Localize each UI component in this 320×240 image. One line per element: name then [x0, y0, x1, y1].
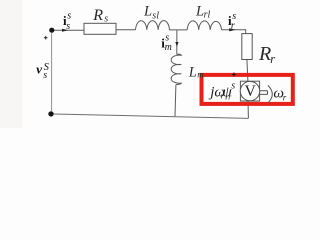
svg-text:s: s: [231, 80, 235, 91]
svg-text:L: L: [188, 65, 197, 81]
svg-text:s: s: [104, 14, 108, 25]
svg-text:s: s: [66, 21, 70, 32]
svg-text:v: v: [36, 62, 42, 77]
svg-text:R: R: [92, 7, 103, 24]
svg-text:V: V: [245, 83, 257, 100]
svg-text:s: s: [67, 10, 71, 21]
svg-text:rl: rl: [204, 10, 211, 21]
svg-text:s: s: [43, 70, 47, 81]
svg-text:m: m: [197, 69, 204, 79]
svg-text:L: L: [143, 3, 152, 19]
svg-text:m: m: [165, 42, 172, 53]
svg-text:sl: sl: [152, 10, 159, 21]
svg-text:r: r: [231, 21, 235, 32]
svg-text:r: r: [283, 93, 287, 103]
